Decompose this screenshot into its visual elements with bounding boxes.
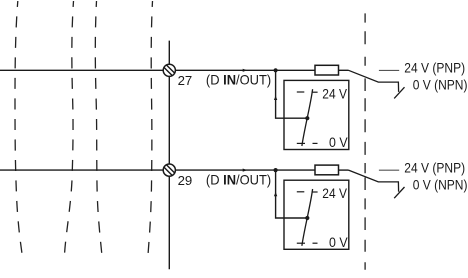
wire: field side to terminal 29 <box>0 169 163 171</box>
switch lever channel 2 <box>302 189 313 246</box>
terminal 27 (screw contact) <box>163 64 175 76</box>
svg-text:(D IN/OUT): (D IN/OUT) <box>206 72 271 88</box>
svg-text:24 V: 24 V <box>322 185 347 201</box>
switch common dot channel 2 <box>305 216 309 220</box>
24V stub contact channel 2 <box>379 169 399 171</box>
cable boundary dashed line 4 <box>148 1 153 255</box>
cable boundary dashed line 3 <box>95 1 102 256</box>
switch contact tick top-left channel 2 <box>297 191 305 193</box>
switch contact tick top-right channel 2 <box>312 191 318 193</box>
switch contact tick bottom-right channel 2 <box>313 242 318 244</box>
switch contact tick bottom-left channel 1 <box>297 142 305 144</box>
wire: terminal 29 to resistor R2 <box>175 169 315 171</box>
switch contact tick bottom-right channel 1 <box>313 142 318 144</box>
wire: resistor R1 to selector <box>339 69 349 71</box>
junction dot channel 2 <box>274 168 278 172</box>
wire: junction to switch common channel 1 <box>276 70 308 118</box>
junction dot channel 1 <box>274 68 278 72</box>
output stage box channel 1 <box>284 80 349 149</box>
direction arrow up channel 2 <box>274 192 277 196</box>
svg-text:(D IN/OUT): (D IN/OUT) <box>206 172 271 188</box>
svg-text:0 V: 0 V <box>329 134 348 150</box>
signal direction arrow channel 2 <box>243 169 248 172</box>
24V stub contact channel 1 <box>379 69 399 71</box>
svg-text:24 V: 24 V <box>322 85 347 101</box>
svg-text:24 V (PNP): 24 V (PNP) <box>404 160 465 176</box>
selector break slash channel 2 <box>394 187 404 198</box>
wire: terminal 27 to resistor R1 <box>175 69 315 71</box>
terminal 29 (screw contact) <box>163 164 175 176</box>
svg-text:29: 29 <box>178 173 193 188</box>
selector lever channel 1 <box>349 70 399 92</box>
resistor R2 <box>315 165 339 175</box>
direction arrow up channel 1 <box>274 96 277 100</box>
cable boundary dashed line 1 <box>15 1 23 257</box>
switch lever channel 1 <box>302 89 313 146</box>
cable boundary dashed line 2 <box>65 1 74 255</box>
output stage box channel 2 <box>284 180 349 249</box>
selector break slash channel 1 <box>394 87 404 98</box>
svg-text:24 V (PNP): 24 V (PNP) <box>404 60 465 76</box>
selector lever channel 2 <box>349 170 399 192</box>
svg-text:0 V (NPN): 0 V (NPN) <box>413 76 468 92</box>
wire: junction to switch common channel 2 <box>276 170 308 218</box>
svg-text:0 V: 0 V <box>329 234 348 250</box>
switch contact tick bottom-left channel 2 <box>297 242 305 244</box>
wire: resistor R2 to selector <box>339 169 349 171</box>
wire: internal vertical bus through terminals <box>168 41 170 270</box>
switch common dot channel 1 <box>305 116 309 120</box>
svg-text:0 V (NPN): 0 V (NPN) <box>413 176 468 192</box>
resistor R1 <box>315 65 339 75</box>
wire: field side to terminal 27 <box>0 69 163 71</box>
svg-text:27: 27 <box>178 73 193 88</box>
module boundary dashed line (right) <box>364 13 366 269</box>
switch contact tick top-left channel 1 <box>297 91 305 93</box>
switch contact tick top-right channel 1 <box>312 91 318 93</box>
signal direction arrow channel 1 <box>243 69 248 72</box>
